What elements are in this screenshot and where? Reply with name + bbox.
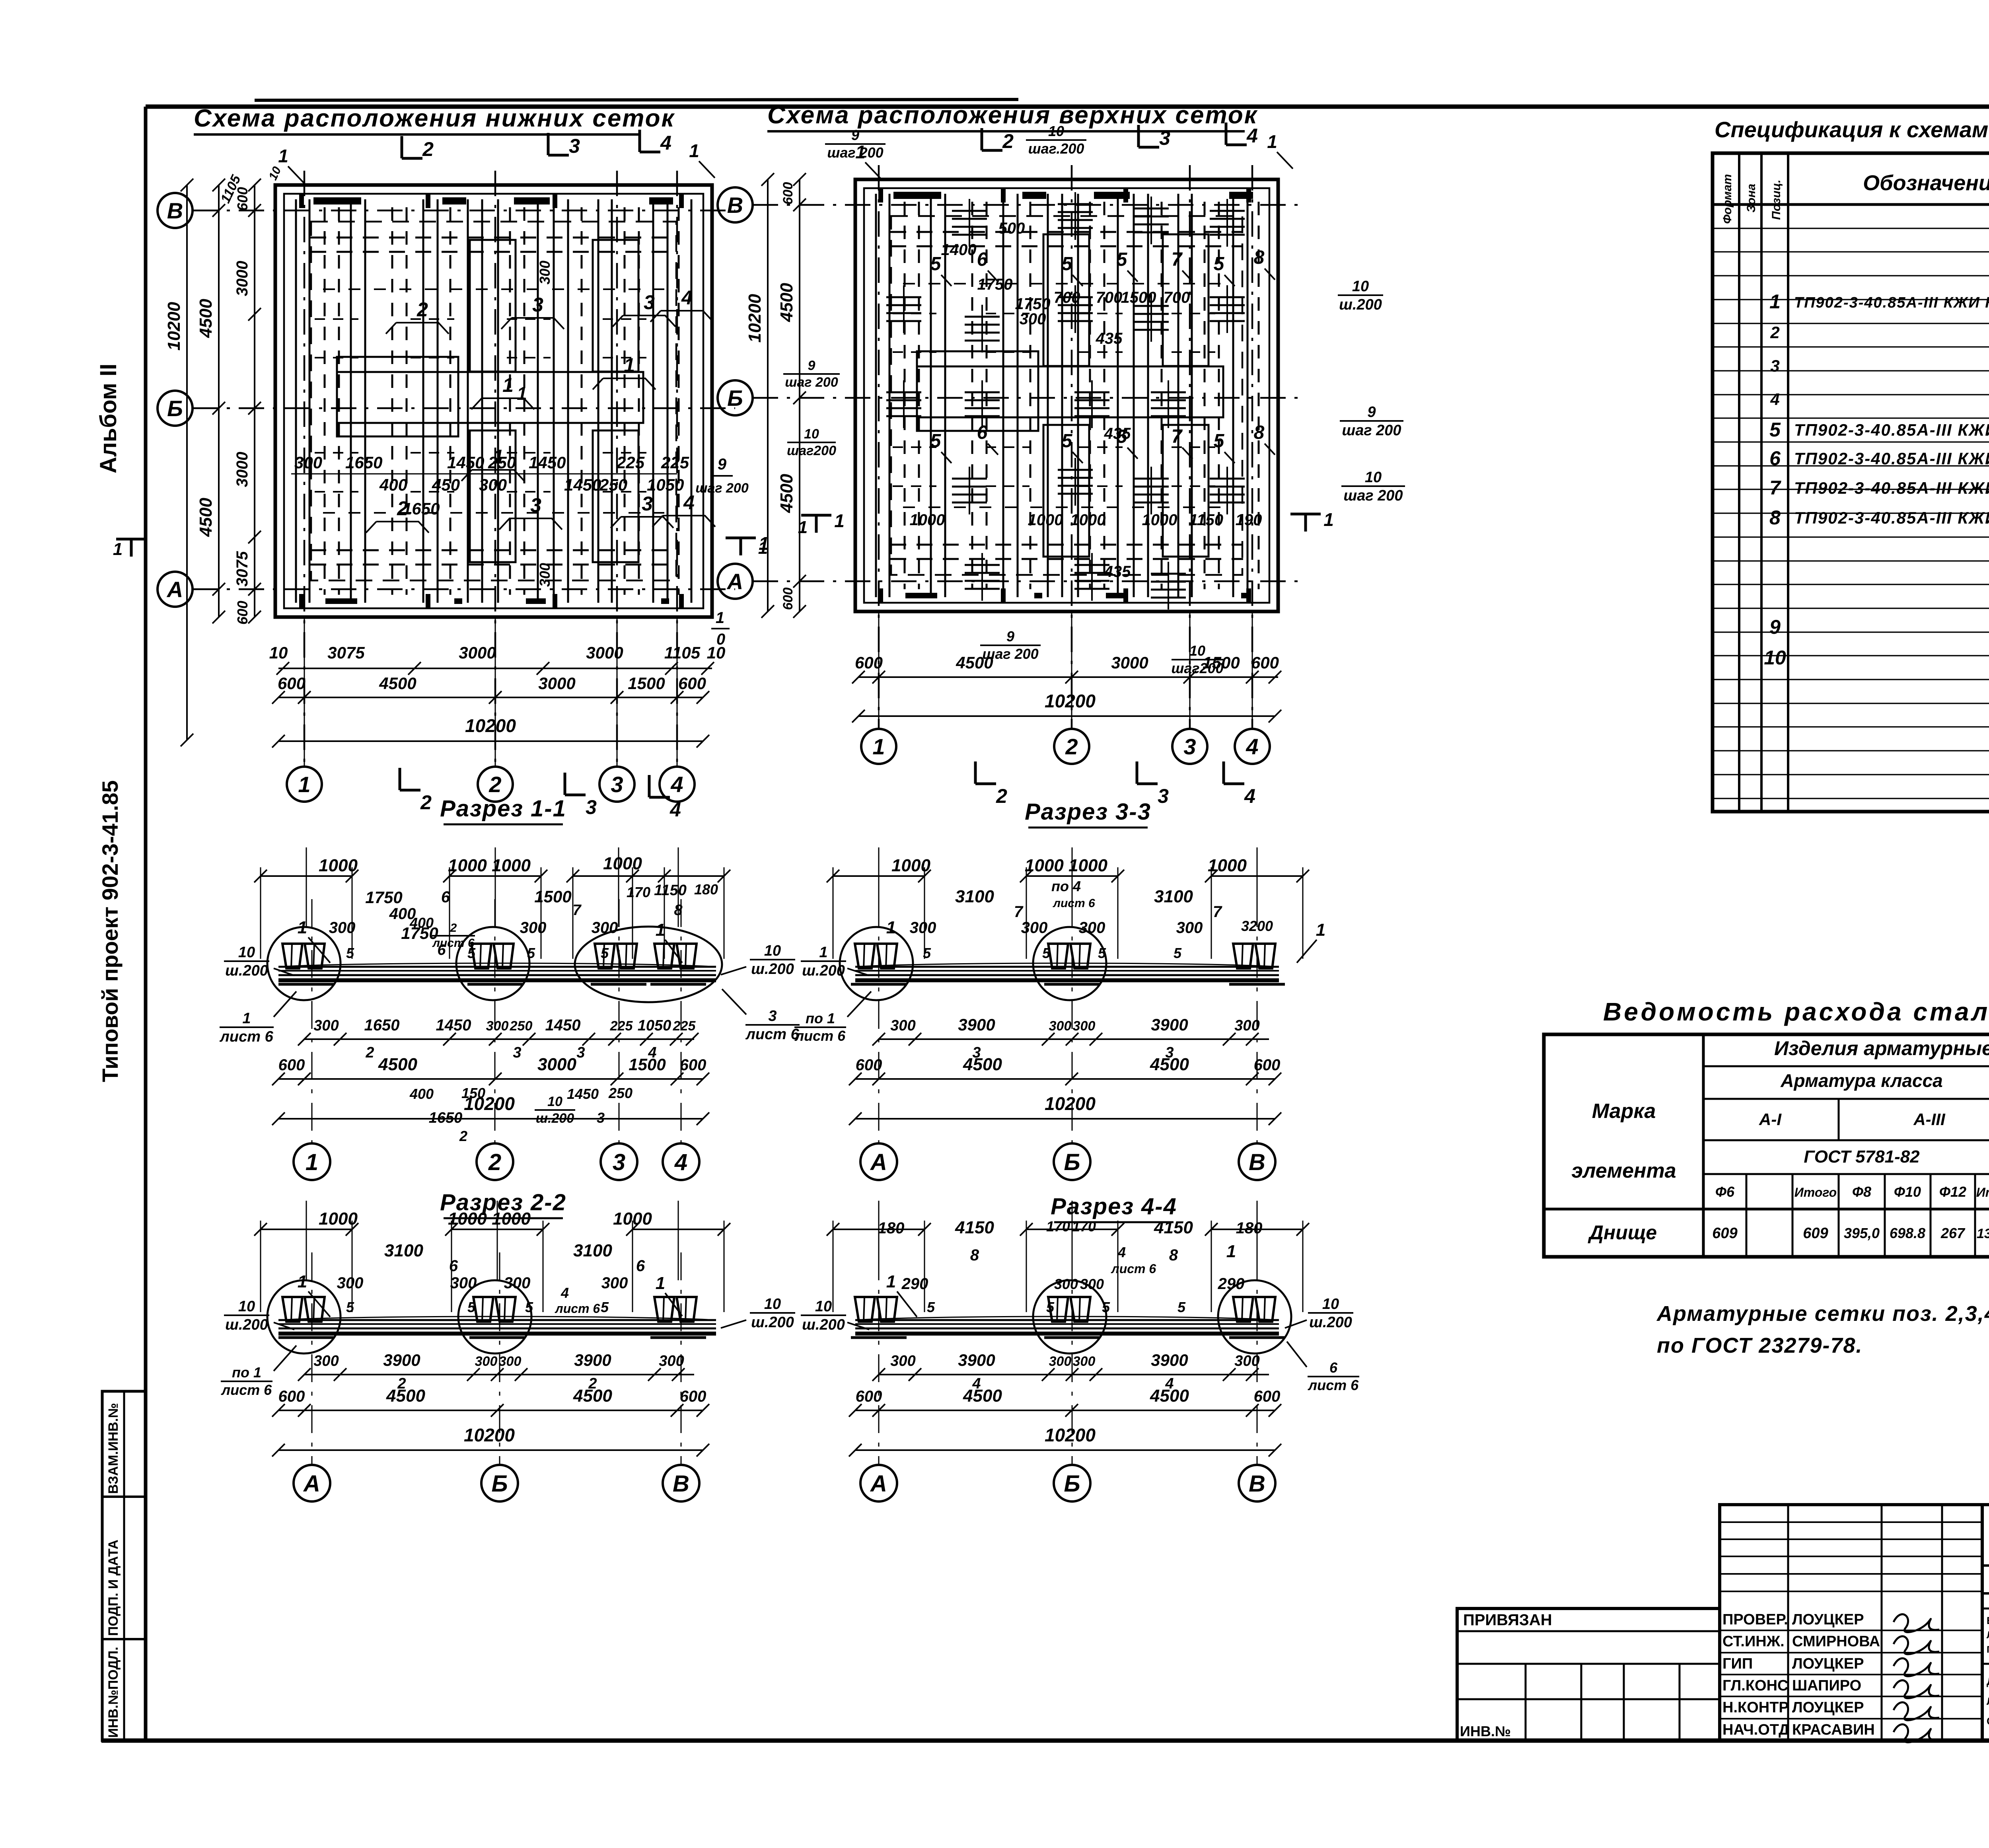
svg-text:300: 300	[313, 1017, 339, 1034]
svg-text:8: 8	[1254, 247, 1265, 268]
svg-text:ЛОУЦКЕР: ЛОУЦКЕР	[1792, 1699, 1864, 1716]
svg-text:по 4: по 4	[1051, 878, 1081, 894]
svg-text:шаг 200: шаг 200	[1342, 422, 1401, 439]
svg-text:по 1: по 1	[806, 1010, 835, 1026]
svg-text:600: 600	[1254, 1388, 1281, 1405]
svg-text:300: 300	[486, 1018, 509, 1034]
svg-text:Ф6: Ф6	[1715, 1184, 1735, 1200]
svg-text:1000: 1000	[603, 854, 642, 873]
svg-text:Ведомость расхода стали на: Ведомость расхода стали на элемент , кг	[1603, 997, 1989, 1026]
svg-text:3: 3	[611, 772, 623, 797]
svg-text:10: 10	[238, 1298, 255, 1315]
svg-text:2: 2	[1770, 323, 1779, 342]
svg-text:ПРОВЕР.: ПРОВЕР.	[1722, 1611, 1788, 1628]
svg-text:4150: 4150	[955, 1218, 994, 1237]
svg-text:300: 300	[504, 1274, 531, 1292]
svg-text:3100: 3100	[955, 887, 994, 906]
svg-text:5: 5	[346, 1299, 354, 1315]
svg-text:450: 450	[432, 475, 460, 494]
svg-text:1: 1	[886, 918, 896, 937]
svg-text:1650: 1650	[345, 453, 382, 472]
svg-text:4: 4	[1244, 785, 1255, 807]
svg-text:ТП902-3-40.85А-III КЖИ С3: ТП902-3-40.85А-III КЖИ С3	[1794, 479, 1989, 497]
svg-text:1000: 1000	[613, 1209, 652, 1229]
svg-text:5: 5	[601, 1299, 609, 1315]
svg-text:В: В	[727, 193, 743, 218]
svg-text:10: 10	[1322, 1296, 1339, 1312]
svg-text:3: 3	[530, 494, 541, 516]
svg-text:5: 5	[1117, 249, 1128, 270]
svg-text:ТП902-3-40.85А-III КЖИ С1: ТП902-3-40.85А-III КЖИ С1	[1794, 421, 1989, 439]
svg-text:300: 300	[1073, 1018, 1096, 1034]
svg-text:Арматурные сетки поз. 2,3,4: Арматурные сетки поз. 2,3,4	[1656, 1302, 1989, 1326]
svg-text:3: 3	[532, 294, 543, 316]
svg-text:2: 2	[365, 1044, 374, 1061]
svg-text:10200: 10200	[1045, 691, 1096, 711]
svg-text:лист 6: лист 6	[1308, 1377, 1359, 1393]
svg-text:1: 1	[113, 539, 123, 559]
svg-text:Схема расположения верхних сет: Схема расположения верхних сеток	[767, 101, 1258, 129]
svg-text:А: А	[870, 1149, 887, 1175]
svg-text:БЛОК ЕМКОСТЕЙ ДЛЯ СТАНЦИИ БИО-: БЛОК ЕМКОСТЕЙ ДЛЯ СТАНЦИИ БИО-	[1987, 1614, 1989, 1626]
svg-text:В: В	[1249, 1149, 1265, 1175]
svg-text:1050: 1050	[638, 1017, 671, 1034]
svg-text:3: 3	[597, 1110, 605, 1126]
svg-text:300: 300	[1080, 1276, 1104, 1292]
svg-text:В: В	[1249, 1471, 1265, 1497]
svg-text:700: 700	[1054, 289, 1080, 306]
svg-text:5: 5	[1102, 1299, 1110, 1315]
svg-text:2: 2	[1065, 734, 1078, 759]
svg-text:1500: 1500	[1121, 289, 1156, 306]
svg-text:1450: 1450	[436, 1016, 471, 1034]
svg-text:225: 225	[616, 453, 645, 472]
svg-text:3: 3	[1159, 127, 1170, 149]
svg-text:600: 600	[780, 588, 796, 610]
svg-text:ЛОГИЧЕСКОЙ ОЧИСТКИ СТОЧНЫХ ВОД: ЛОГИЧЕСКОЙ ОЧИСТКИ СТОЧНЫХ ВОД	[1987, 1629, 1989, 1641]
svg-text:609: 609	[1712, 1225, 1737, 1242]
svg-text:1105: 1105	[664, 643, 701, 662]
svg-text:4: 4	[674, 1149, 687, 1175]
svg-text:Формат: Формат	[1721, 174, 1734, 224]
svg-text:ЛОУЦКЕР: ЛОУЦКЕР	[1792, 1655, 1864, 1672]
svg-text:6: 6	[1329, 1359, 1338, 1376]
svg-text:шаг 200: шаг 200	[827, 144, 883, 161]
svg-text:180: 180	[878, 1219, 905, 1237]
svg-text:1450: 1450	[545, 1016, 581, 1034]
svg-text:1750: 1750	[977, 276, 1013, 293]
svg-text:5: 5	[1042, 945, 1051, 961]
svg-text:4500: 4500	[1150, 1055, 1189, 1074]
svg-text:5: 5	[1174, 945, 1182, 961]
svg-text:шаг 200: шаг 200	[695, 481, 749, 496]
svg-text:3900: 3900	[1151, 1015, 1188, 1034]
svg-text:10: 10	[238, 944, 255, 961]
svg-text:10: 10	[1048, 123, 1064, 139]
svg-text:1: 1	[1267, 131, 1277, 152]
svg-text:Типовой проект 902-3-41.85: Типовой проект 902-3-41.85	[97, 780, 123, 1082]
svg-text:170: 170	[1072, 1218, 1096, 1235]
svg-text:3: 3	[1770, 356, 1779, 375]
svg-text:1650: 1650	[429, 1110, 463, 1126]
svg-text:3900: 3900	[958, 1351, 995, 1369]
svg-text:шаг 200: шаг 200	[1343, 487, 1403, 504]
svg-text:2: 2	[488, 1149, 501, 1175]
svg-text:Ф10: Ф10	[1894, 1184, 1921, 1200]
svg-text:2: 2	[450, 921, 457, 935]
svg-text:400: 400	[409, 1086, 434, 1102]
svg-text:ДНИЩЕ. АРМИРОВАНИЕ. СХЕМА РАСП: ДНИЩЕ. АРМИРОВАНИЕ. СХЕМА РАСПО-	[1987, 1675, 1989, 1687]
svg-text:225: 225	[673, 1018, 696, 1034]
svg-text:3000: 3000	[1111, 653, 1148, 672]
svg-text:180: 180	[1236, 1219, 1263, 1237]
svg-text:1: 1	[819, 944, 827, 961]
svg-text:лист 6: лист 6	[432, 937, 475, 950]
svg-text:лист 6: лист 6	[555, 1301, 600, 1316]
svg-text:9: 9	[1769, 616, 1781, 638]
svg-text:1000: 1000	[1142, 511, 1177, 529]
svg-text:СТ.ИНЖ.: СТ.ИНЖ.	[1722, 1633, 1785, 1650]
svg-text:225: 225	[610, 1018, 633, 1034]
svg-text:ш.200: ш.200	[751, 961, 794, 978]
svg-text:500: 500	[998, 220, 1025, 237]
svg-text:ПРОИЗВОДИТЕЛЬНОСТЬЮ100ТЫС.М³/С: ПРОИЗВОДИТЕЛЬНОСТЬЮ100ТЫС.М³/СУТ	[1987, 1644, 1989, 1655]
svg-text:4500: 4500	[777, 283, 796, 322]
svg-text:8: 8	[970, 1246, 979, 1264]
svg-text:435: 435	[1104, 425, 1131, 442]
svg-text:ТП902-3-40.85А-III КЖИ С2: ТП902-3-40.85А-III КЖИ С2	[1794, 449, 1989, 468]
svg-text:10: 10	[1352, 278, 1369, 295]
svg-text:А: А	[726, 569, 743, 594]
svg-text:ШАПИРО: ШАПИРО	[1792, 1677, 1861, 1694]
svg-text:10: 10	[764, 1296, 781, 1312]
svg-text:Альбом II: Альбом II	[95, 364, 121, 473]
svg-text:1: 1	[834, 510, 845, 531]
svg-text:Позиц.: Позиц.	[1770, 179, 1783, 220]
svg-text:элемента: элемента	[1571, 1159, 1676, 1182]
svg-text:1: 1	[886, 1272, 896, 1291]
svg-text:300: 300	[890, 1017, 915, 1034]
svg-text:Арматура класса: Арматура класса	[1780, 1070, 1943, 1091]
svg-text:300: 300	[499, 1354, 522, 1369]
svg-text:300: 300	[1054, 1276, 1078, 1292]
svg-text:3000: 3000	[537, 1055, 576, 1074]
svg-text:1500: 1500	[534, 887, 571, 906]
svg-text:10: 10	[1189, 643, 1205, 659]
svg-text:Итого: Итого	[1794, 1185, 1837, 1200]
svg-text:ш.200: ш.200	[802, 1316, 845, 1333]
svg-text:Б: Б	[491, 1471, 508, 1497]
svg-text:4500: 4500	[963, 1386, 1002, 1406]
svg-text:6: 6	[977, 249, 988, 270]
svg-text:ПРИВЯЗАН: ПРИВЯЗАН	[1463, 1611, 1552, 1629]
svg-text:шаг200: шаг200	[1171, 660, 1223, 676]
svg-text:1000 1000: 1000 1000	[448, 856, 531, 875]
svg-text:9: 9	[808, 358, 815, 373]
svg-text:ш.200: ш.200	[802, 962, 845, 979]
svg-text:А: А	[166, 577, 183, 602]
svg-text:4150: 4150	[1154, 1218, 1193, 1237]
svg-text:лист 6: лист 6	[1052, 897, 1095, 910]
svg-text:10: 10	[815, 1298, 832, 1315]
svg-text:10200: 10200	[465, 715, 516, 736]
svg-text:1450: 1450	[564, 475, 601, 494]
svg-text:2: 2	[1002, 130, 1014, 152]
svg-text:170: 170	[1046, 1218, 1070, 1235]
svg-text:1000 1000: 1000 1000	[1025, 856, 1108, 875]
svg-text:3: 3	[768, 1008, 777, 1024]
svg-text:Н.КОНТР: Н.КОНТР	[1722, 1699, 1789, 1716]
svg-text:Разрез 4-4: Разрез 4-4	[1051, 1194, 1177, 1219]
svg-text:1: 1	[656, 920, 665, 940]
svg-text:5: 5	[1062, 430, 1073, 452]
svg-text:4: 4	[561, 1285, 569, 1301]
svg-text:3075: 3075	[327, 643, 365, 662]
svg-text:300: 300	[659, 1353, 684, 1369]
svg-text:9: 9	[1006, 628, 1014, 645]
svg-text:Схема расположения нижних сето: Схема расположения нижних сеток	[194, 105, 675, 132]
svg-text:300: 300	[1079, 919, 1105, 937]
svg-text:698.8: 698.8	[1890, 1225, 1925, 1241]
svg-text:3100: 3100	[573, 1241, 612, 1260]
svg-text:1: 1	[656, 1274, 665, 1293]
svg-text:0: 0	[716, 631, 725, 648]
svg-text:6: 6	[1769, 447, 1781, 469]
svg-text:5: 5	[525, 1299, 533, 1315]
svg-text:4500: 4500	[963, 1055, 1002, 1074]
svg-text:1050: 1050	[647, 475, 684, 494]
svg-text:A-III: A-III	[1913, 1110, 1946, 1129]
svg-text:1150: 1150	[1189, 511, 1223, 529]
svg-text:4: 4	[1770, 390, 1779, 409]
svg-text:300: 300	[329, 919, 356, 937]
svg-text:лист 6: лист 6	[221, 1382, 272, 1398]
svg-text:1: 1	[758, 538, 768, 558]
svg-text:Б: Б	[727, 386, 743, 411]
svg-text:435: 435	[1096, 330, 1123, 347]
svg-text:4: 4	[669, 798, 681, 821]
svg-text:1: 1	[502, 374, 514, 396]
svg-text:300: 300	[1021, 919, 1048, 937]
svg-text:ш.200: ш.200	[751, 1314, 794, 1331]
svg-text:1000: 1000	[1070, 511, 1106, 529]
svg-text:1000: 1000	[1208, 856, 1247, 875]
svg-text:3900: 3900	[1151, 1351, 1188, 1369]
svg-text:3900: 3900	[383, 1351, 420, 1369]
svg-text:3000: 3000	[234, 452, 251, 487]
svg-text:Ф12: Ф12	[1939, 1184, 1966, 1200]
svg-text:1: 1	[298, 918, 307, 937]
svg-text:4: 4	[683, 491, 695, 514]
svg-text:600: 600	[1251, 653, 1279, 672]
svg-text:1361,4: 1361,4	[1977, 1226, 1989, 1241]
svg-text:9: 9	[851, 127, 859, 143]
svg-text:ЛОЖЕНИЯ ВЕРХНИХ И НИЖНИХ: ЛОЖЕНИЯ ВЕРХНИХ И НИЖНИХ	[1987, 1695, 1989, 1707]
svg-text:4500: 4500	[196, 299, 216, 338]
svg-text:2: 2	[459, 1128, 467, 1144]
svg-text:5: 5	[927, 1299, 935, 1315]
svg-text:5: 5	[930, 253, 942, 275]
svg-text:шаг.200: шаг.200	[1028, 140, 1084, 157]
svg-text:170: 170	[627, 884, 650, 900]
svg-text:4500: 4500	[573, 1386, 612, 1406]
svg-text:400: 400	[409, 915, 434, 931]
svg-text:5: 5	[1769, 419, 1781, 441]
svg-text:лист 6: лист 6	[219, 1028, 273, 1045]
svg-text:В: В	[673, 1471, 689, 1497]
svg-text:1: 1	[1769, 290, 1781, 313]
svg-text:300: 300	[313, 1353, 339, 1369]
svg-text:10: 10	[1365, 469, 1382, 486]
svg-text:300: 300	[601, 1274, 628, 1292]
svg-text:Зона: Зона	[1745, 184, 1758, 212]
svg-text:Обозначение: Обозначение	[1863, 171, 1989, 195]
svg-text:7: 7	[1213, 903, 1222, 921]
svg-text:10: 10	[269, 643, 288, 662]
svg-text:5: 5	[527, 945, 535, 961]
svg-text:Ф8: Ф8	[1852, 1184, 1871, 1200]
svg-text:1150: 1150	[654, 882, 687, 899]
svg-text:5: 5	[1062, 253, 1073, 275]
svg-text:10200: 10200	[1045, 1425, 1096, 1445]
svg-text:7: 7	[1769, 477, 1781, 499]
svg-text:ИНВ.№: ИНВ.№	[1460, 1723, 1511, 1739]
svg-text:2: 2	[420, 791, 432, 814]
svg-text:600: 600	[278, 674, 306, 693]
svg-text:300: 300	[1234, 1353, 1259, 1369]
svg-text:СМИРНОВА: СМИРНОВА	[1792, 1633, 1880, 1650]
svg-text:ш.200: ш.200	[1309, 1314, 1352, 1331]
svg-text:Итого: Итого	[1976, 1185, 1989, 1200]
svg-text:1: 1	[1226, 1242, 1236, 1261]
svg-text:Днище: Днище	[1588, 1221, 1657, 1244]
svg-text:10200: 10200	[164, 302, 184, 351]
svg-text:4500: 4500	[386, 1386, 425, 1406]
svg-text:700: 700	[1164, 289, 1190, 306]
svg-text:СЕТОК.: СЕТОК.	[1987, 1715, 1989, 1727]
svg-text:10: 10	[547, 1094, 562, 1109]
svg-text:3075: 3075	[234, 551, 251, 587]
svg-text:3: 3	[1158, 785, 1169, 807]
svg-text:1000: 1000	[910, 511, 945, 529]
svg-text:7: 7	[572, 902, 582, 919]
svg-text:4: 4	[1246, 125, 1258, 147]
svg-text:1: 1	[517, 383, 527, 404]
svg-text:Разрез 3-3: Разрез 3-3	[1025, 799, 1151, 825]
svg-text:267: 267	[1940, 1225, 1966, 1241]
svg-text:250: 250	[488, 453, 516, 472]
svg-text:290: 290	[901, 1275, 928, 1293]
svg-text:1450: 1450	[447, 453, 484, 472]
svg-text:5: 5	[1177, 1299, 1186, 1315]
svg-text:300: 300	[475, 1354, 498, 1369]
svg-text:шаг 200: шаг 200	[785, 375, 838, 390]
svg-text:4: 4	[670, 772, 683, 797]
svg-text:180: 180	[694, 881, 718, 898]
svg-text:4: 4	[1117, 1244, 1126, 1260]
svg-text:5: 5	[1214, 430, 1225, 452]
svg-text:НАЧ.ОТД: НАЧ.ОТД	[1722, 1721, 1789, 1738]
svg-text:8: 8	[674, 902, 683, 919]
svg-text:4500: 4500	[1150, 1386, 1189, 1406]
svg-text:3: 3	[613, 1149, 625, 1175]
svg-text:9: 9	[1367, 404, 1376, 421]
svg-text:5: 5	[1046, 1299, 1055, 1315]
svg-text:3100: 3100	[384, 1241, 423, 1260]
svg-text:300: 300	[520, 919, 547, 937]
svg-text:300: 300	[1234, 1017, 1259, 1034]
svg-text:300: 300	[1049, 1018, 1072, 1034]
svg-text:1: 1	[872, 734, 885, 759]
svg-text:10: 10	[1764, 647, 1786, 669]
svg-text:300: 300	[1049, 1354, 1072, 1369]
svg-text:7: 7	[1014, 903, 1024, 921]
svg-text:300: 300	[1073, 1354, 1096, 1369]
svg-text:ГОСТ 5781-82: ГОСТ 5781-82	[1804, 1147, 1920, 1166]
svg-text:ГИП: ГИП	[1722, 1655, 1753, 1672]
svg-text:1500: 1500	[628, 674, 665, 693]
svg-text:300: 300	[450, 1274, 477, 1292]
svg-text:609: 609	[1803, 1225, 1828, 1242]
svg-text:1: 1	[624, 354, 635, 376]
svg-text:ТП902-3-40.85А-III КЖИ КП1: ТП902-3-40.85А-III КЖИ КП1	[1794, 294, 1989, 311]
svg-text:600: 600	[278, 1388, 305, 1405]
svg-text:1650: 1650	[364, 1016, 400, 1034]
svg-text:2: 2	[416, 298, 428, 321]
svg-text:1000: 1000	[319, 856, 358, 875]
svg-text:250: 250	[599, 475, 627, 494]
svg-text:1000 1000: 1000 1000	[448, 1209, 531, 1229]
svg-text:7: 7	[1172, 249, 1183, 270]
svg-text:шаг200: шаг200	[787, 443, 836, 458]
svg-text:3000: 3000	[586, 643, 623, 662]
svg-text:400: 400	[379, 475, 407, 494]
svg-text:2: 2	[488, 772, 501, 797]
svg-text:5: 5	[1214, 253, 1225, 275]
svg-text:ИНВ.№ПОДЛ.: ИНВ.№ПОДЛ.	[106, 1647, 121, 1738]
svg-text:3200: 3200	[1241, 918, 1273, 934]
svg-text:10200: 10200	[745, 294, 765, 343]
svg-text:600: 600	[856, 1388, 882, 1405]
svg-text:ш.200: ш.200	[1339, 296, 1382, 313]
svg-text:ВЗАМ.ИНВ.№: ВЗАМ.ИНВ.№	[106, 1403, 121, 1494]
svg-text:ш.200: ш.200	[536, 1111, 574, 1126]
svg-text:3: 3	[576, 1044, 585, 1061]
svg-text:5: 5	[601, 945, 609, 961]
svg-text:10: 10	[804, 426, 819, 442]
svg-text:4: 4	[681, 286, 693, 309]
svg-text:шаг 200: шаг 200	[982, 646, 1038, 662]
svg-text:9: 9	[718, 456, 727, 473]
svg-text:5: 5	[923, 945, 931, 961]
svg-text:ш.200: ш.200	[225, 962, 268, 979]
svg-text:2: 2	[422, 138, 434, 160]
svg-text:300: 300	[479, 475, 507, 494]
svg-text:600: 600	[678, 674, 706, 693]
svg-text:ш.200: ш.200	[225, 1316, 268, 1333]
svg-text:КРАСАВИН: КРАСАВИН	[1792, 1721, 1875, 1738]
svg-text:3900: 3900	[958, 1015, 995, 1034]
svg-text:3900: 3900	[574, 1351, 611, 1369]
svg-text:3: 3	[644, 291, 655, 314]
svg-text:1: 1	[689, 140, 699, 161]
svg-text:300: 300	[537, 261, 553, 284]
svg-text:190: 190	[1236, 511, 1262, 529]
svg-text:300: 300	[910, 919, 936, 937]
svg-text:Спецификация к схемам располож: Спецификация к схемам расположения армат…	[1715, 117, 1989, 142]
svg-text:4500: 4500	[378, 1055, 417, 1074]
svg-text:395,0: 395,0	[1844, 1225, 1880, 1241]
